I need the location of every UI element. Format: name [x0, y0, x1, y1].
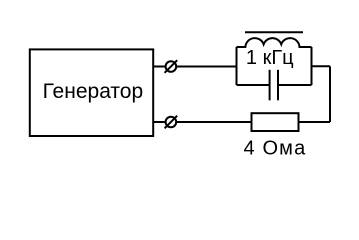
svg-text:Генератор: Генератор [43, 80, 144, 103]
svg-text:1 кГц: 1 кГц [246, 47, 294, 69]
svg-text:4 Ома: 4 Ома [244, 138, 307, 160]
